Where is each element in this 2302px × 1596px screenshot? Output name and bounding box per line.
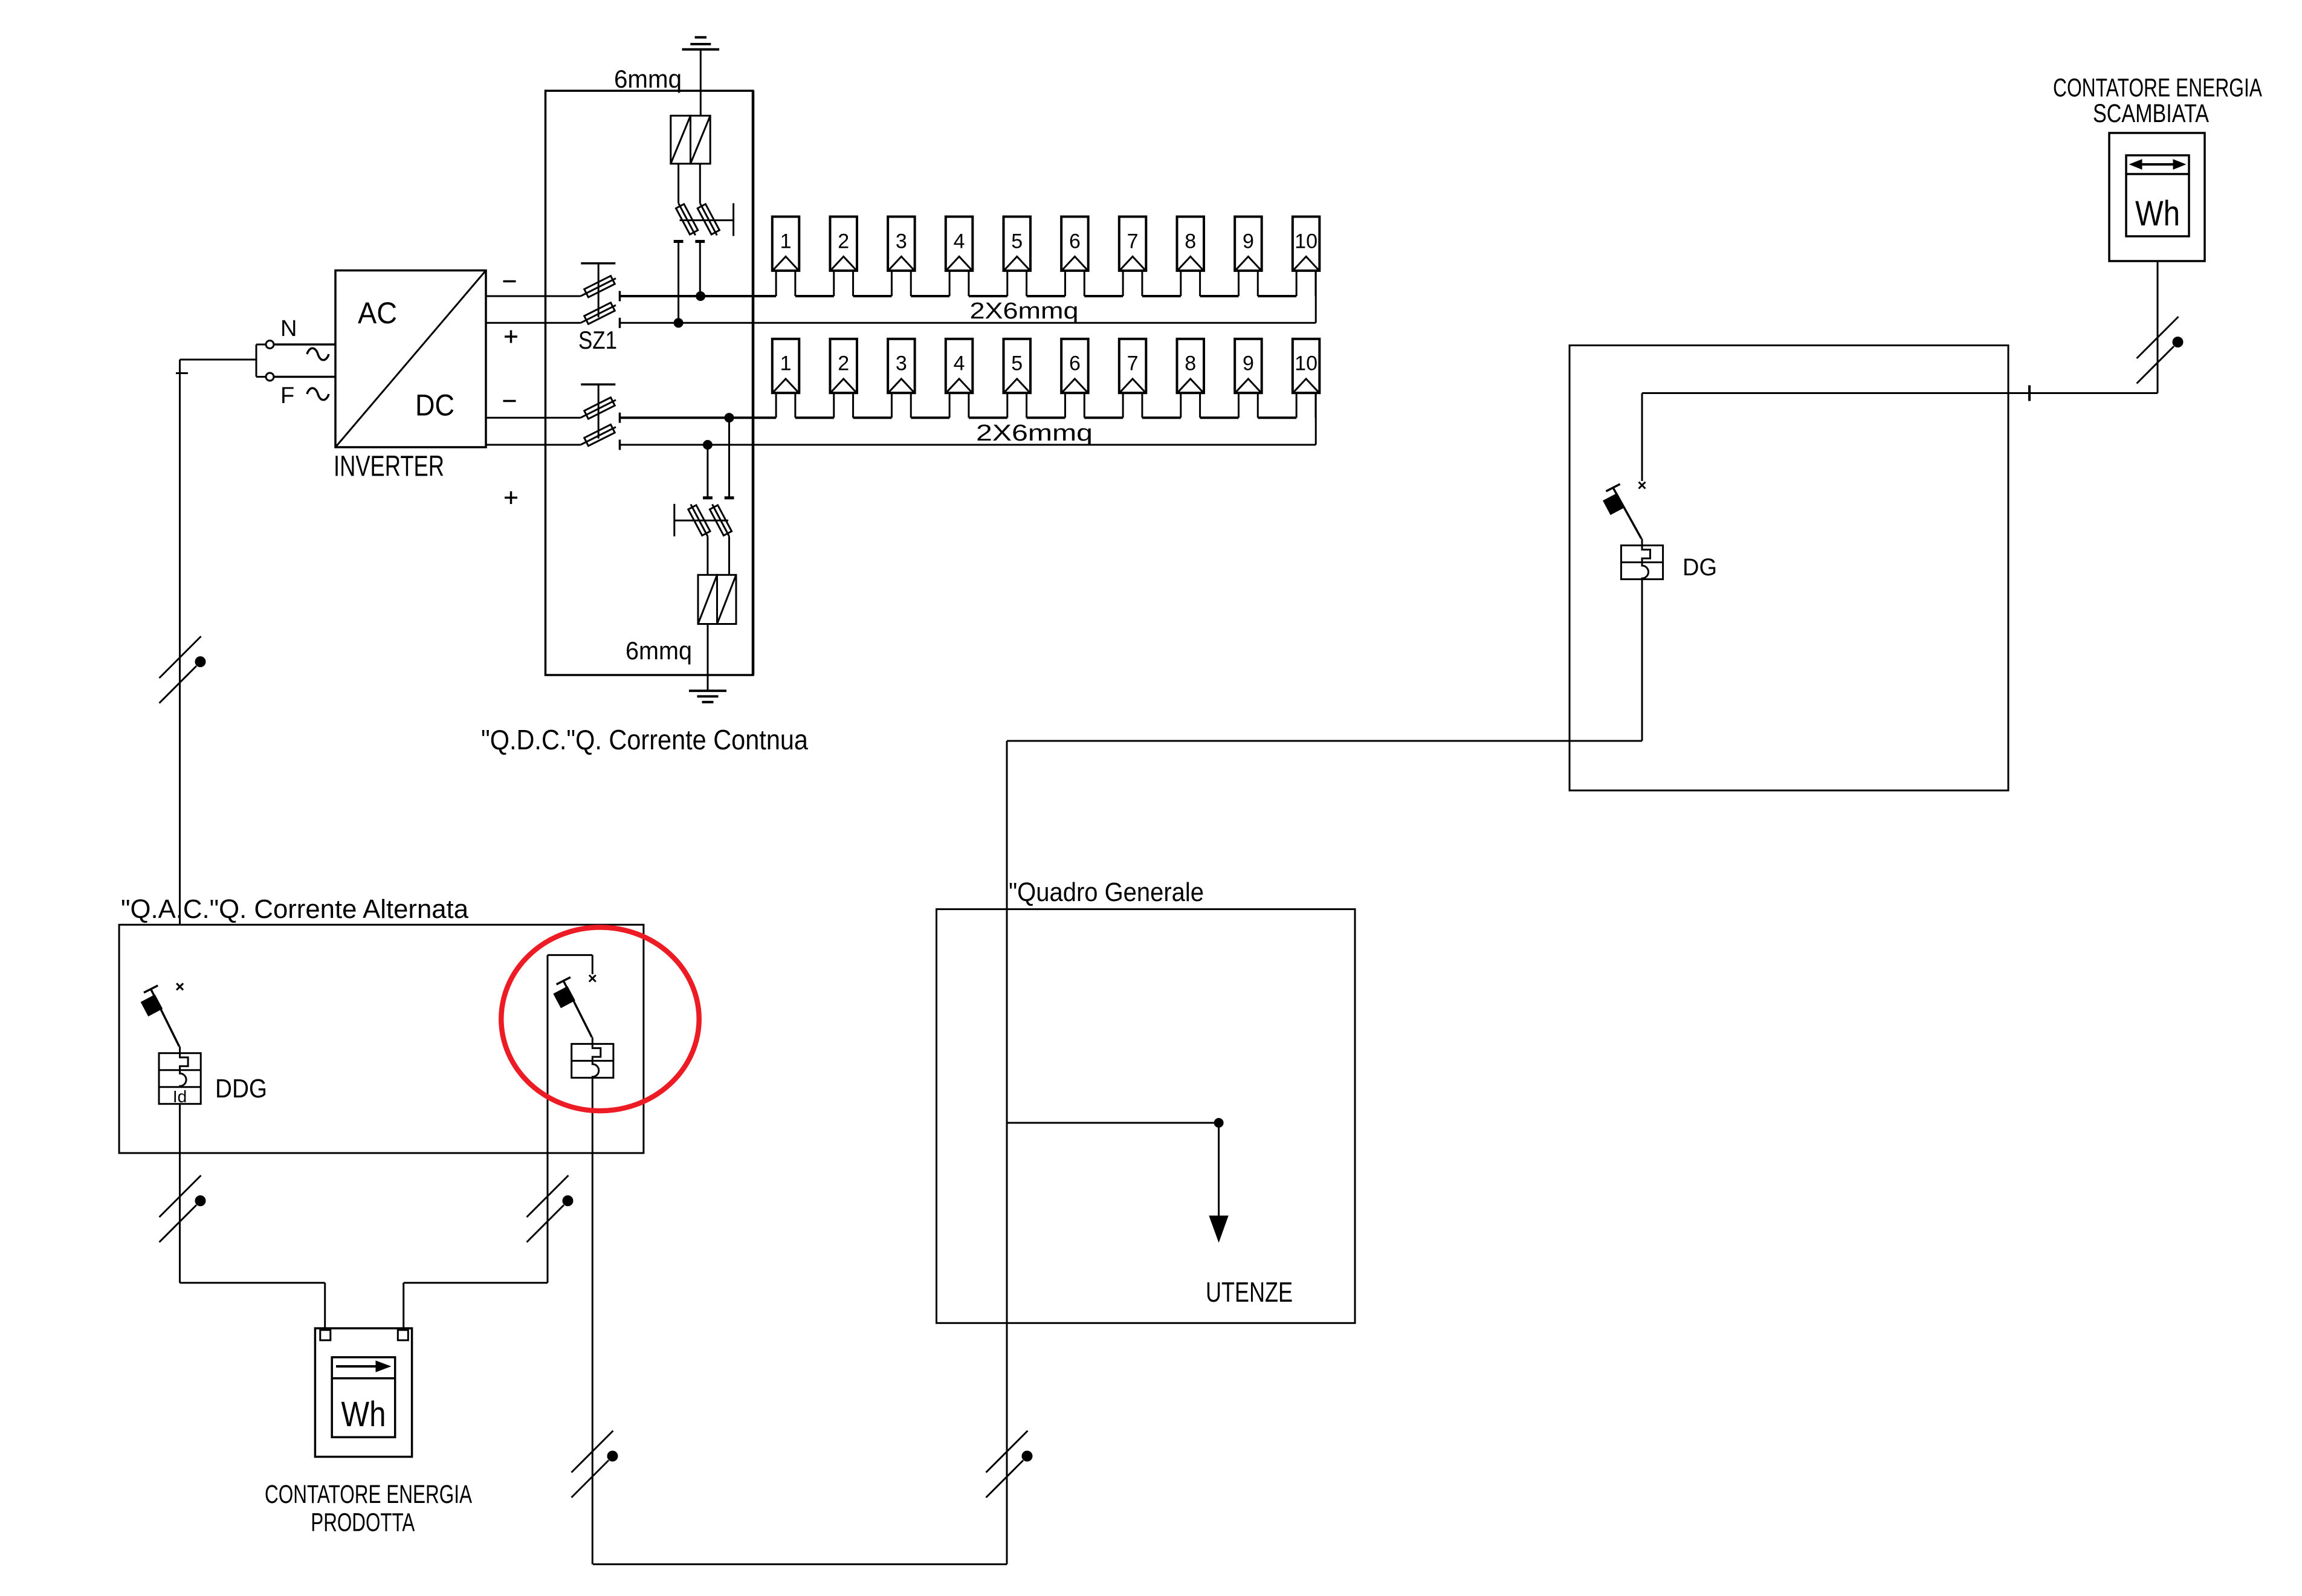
svg-text:7: 7 bbox=[1127, 230, 1139, 253]
svg-text:"Quadro Generale: "Quadro Generale bbox=[1009, 877, 1204, 907]
svg-text:8: 8 bbox=[1185, 230, 1196, 253]
svg-text:6: 6 bbox=[1069, 230, 1081, 253]
svg-text:F: F bbox=[280, 383, 294, 409]
svg-text:DDG: DDG bbox=[215, 1074, 267, 1103]
svg-text:10: 10 bbox=[1295, 352, 1318, 375]
svg-text:9: 9 bbox=[1243, 230, 1254, 253]
svg-text:4: 4 bbox=[954, 230, 965, 253]
svg-text:DC: DC bbox=[415, 389, 454, 422]
svg-text:6mmq: 6mmq bbox=[614, 65, 682, 93]
svg-text:Wh: Wh bbox=[2135, 194, 2180, 233]
svg-text:6mmq: 6mmq bbox=[626, 636, 692, 665]
svg-text:SZ1: SZ1 bbox=[578, 326, 617, 354]
svg-text:N: N bbox=[280, 316, 297, 341]
svg-text:1: 1 bbox=[780, 230, 792, 253]
svg-text:9: 9 bbox=[1243, 352, 1254, 375]
svg-text:5: 5 bbox=[1011, 352, 1023, 375]
svg-text:3: 3 bbox=[896, 230, 907, 253]
svg-text:"Q.D.C."Q. Corrente Contnua: "Q.D.C."Q. Corrente Contnua bbox=[481, 724, 808, 755]
svg-text:7: 7 bbox=[1127, 352, 1139, 375]
svg-text:5: 5 bbox=[1011, 230, 1023, 253]
svg-text:Id: Id bbox=[173, 1087, 187, 1106]
svg-text:DG: DG bbox=[1683, 554, 1717, 581]
svg-text:2: 2 bbox=[838, 352, 849, 375]
svg-text:2: 2 bbox=[838, 230, 849, 253]
svg-text:8: 8 bbox=[1185, 352, 1196, 375]
svg-text:INVERTER: INVERTER bbox=[334, 451, 444, 483]
svg-text:UTENZE: UTENZE bbox=[1206, 1276, 1293, 1308]
svg-text:3: 3 bbox=[896, 352, 907, 375]
svg-text:PRODOTTA: PRODOTTA bbox=[311, 1508, 415, 1537]
svg-text:2X6mmq: 2X6mmq bbox=[976, 421, 1093, 446]
svg-text:Wh: Wh bbox=[341, 1395, 386, 1434]
svg-text:2X6mmq: 2X6mmq bbox=[970, 299, 1079, 324]
svg-text:6: 6 bbox=[1069, 352, 1081, 375]
svg-text:4: 4 bbox=[954, 352, 965, 375]
svg-text:10: 10 bbox=[1295, 230, 1318, 253]
svg-text:CONTATORE ENERGIA: CONTATORE ENERGIA bbox=[265, 1480, 472, 1509]
svg-text:AC: AC bbox=[358, 296, 397, 330]
svg-text:CONTATORE ENERGIA: CONTATORE ENERGIA bbox=[2053, 74, 2262, 103]
svg-text:"Q.A.C."Q. Corrente Alternata: "Q.A.C."Q. Corrente Alternata bbox=[121, 894, 469, 924]
svg-text:SCAMBIATA: SCAMBIATA bbox=[2093, 99, 2209, 128]
svg-text:1: 1 bbox=[780, 352, 792, 375]
